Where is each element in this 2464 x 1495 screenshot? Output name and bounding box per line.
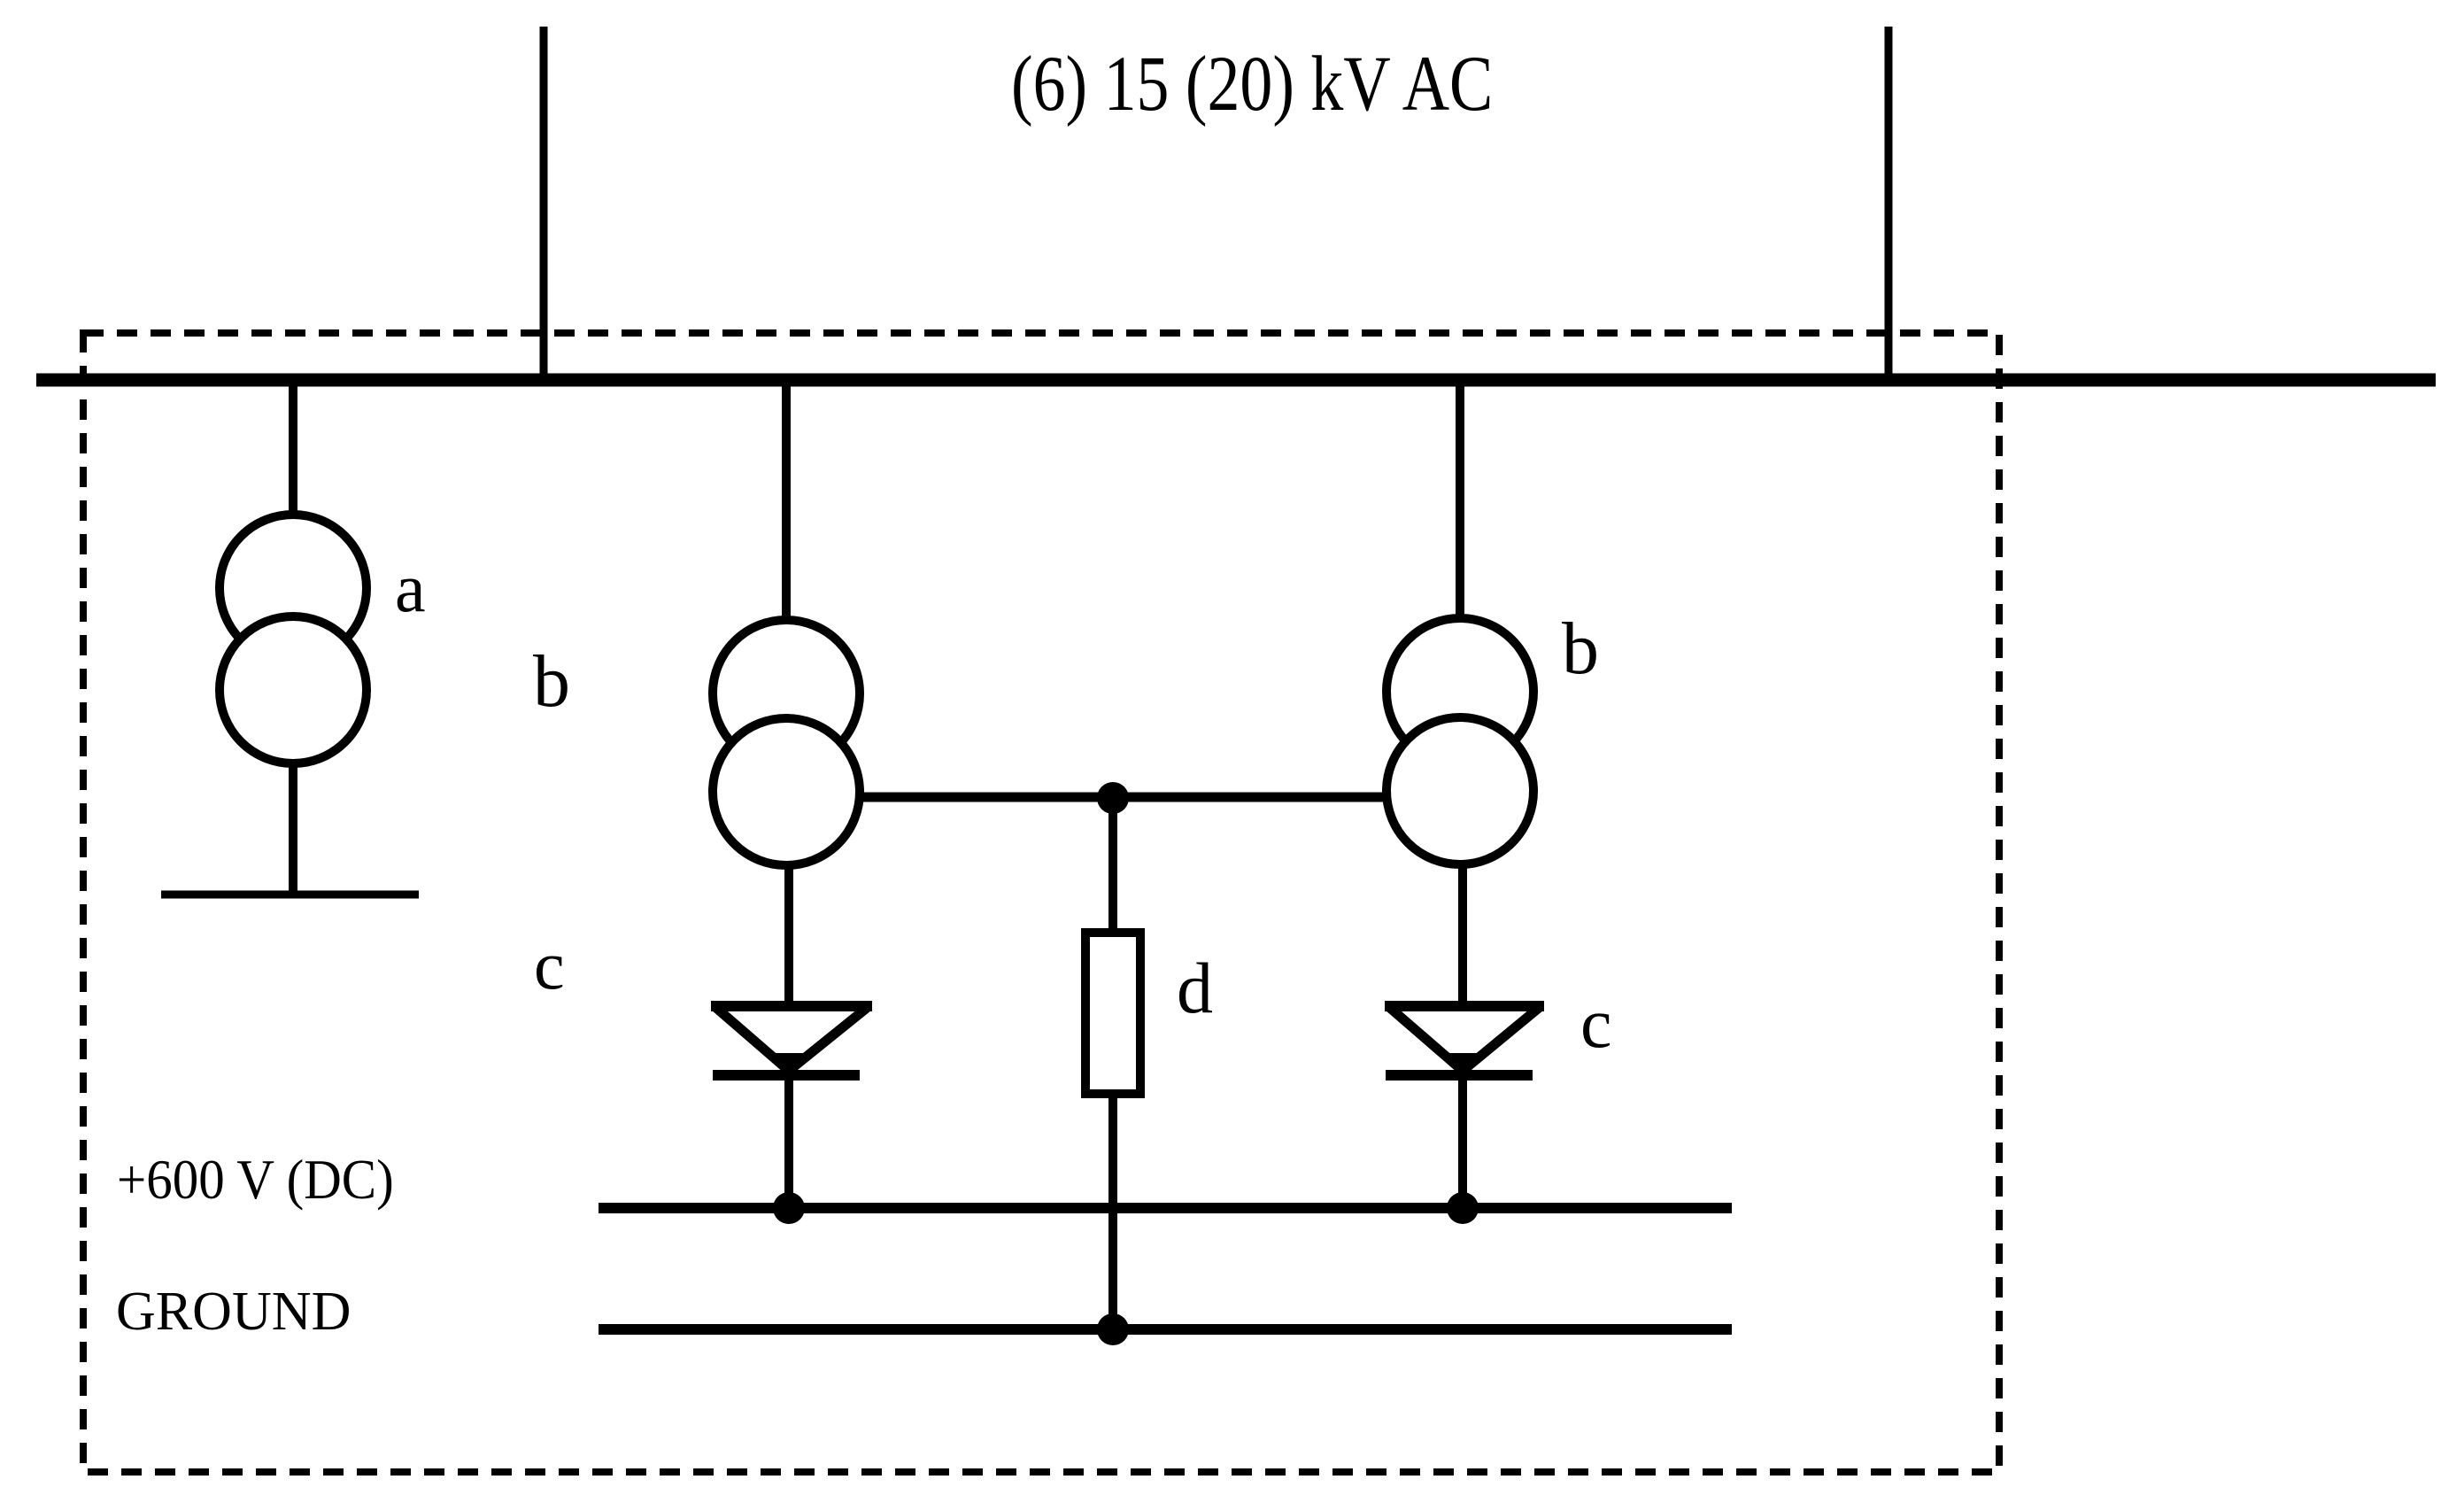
svg-text:c: c (1580, 985, 1612, 1063)
label GROUND (116, 1280, 351, 1343)
diode c right: top bar (1385, 1001, 1544, 1011)
transformer a (220, 515, 367, 763)
wire: diode c middle to +600V line (784, 1069, 793, 1208)
wire: resistor d to ground line (1108, 1094, 1117, 1329)
feeder line right (1885, 27, 1893, 380)
ground symbol (transformer a) (161, 891, 419, 899)
junction dot: resistor d on ground line (1097, 1313, 1129, 1345)
svg-text:GROUND: GROUND (116, 1280, 351, 1343)
wire: bus to transformer b right (1456, 380, 1464, 636)
AC bus bar (36, 374, 2436, 387)
diode c middle: top bar (711, 1001, 872, 1011)
svg-text:b: b (1562, 608, 1599, 690)
diode c middle: left slant (716, 1008, 789, 1071)
diode c right: apex fill (1448, 1053, 1483, 1074)
GROUND line (599, 1324, 1732, 1335)
label +600 V (DC) (117, 1150, 394, 1211)
diode c right: right slant (1463, 1008, 1539, 1071)
label c left (534, 926, 565, 1003)
svg-text:c: c (534, 926, 565, 1003)
resistor d (1085, 933, 1140, 1094)
dashed substation enclosure box (83, 333, 1999, 1472)
label b middle (533, 640, 570, 723)
svg-text:d: d (1177, 948, 1213, 1028)
transformer b middle (713, 620, 860, 865)
wire: diode c right to +600V line (1458, 1069, 1467, 1208)
node N1 wire: middle transformer to right transformer (786, 793, 1460, 802)
label c right (1580, 985, 1612, 1063)
svg-text:(6) 15 (20) kV AC: (6) 15 (20) kV AC (1011, 40, 1493, 128)
wire: transformer b right to diode c right (1458, 791, 1467, 1003)
wire: bus to transformer a (289, 380, 297, 531)
junction dot: diode c right on +600V line (1447, 1192, 1479, 1224)
svg-text:b: b (533, 640, 570, 723)
label b right (1562, 608, 1599, 690)
diode c right: cathode bar (1386, 1070, 1533, 1081)
diode c middle: cathode bar (713, 1070, 860, 1081)
transformer b right (1386, 618, 1533, 864)
feeder line left (540, 27, 548, 380)
junction node N1 dot (1097, 782, 1129, 814)
label a (395, 549, 426, 626)
label (6) 15 (20) kV AC (1011, 40, 1493, 128)
wire: transformer a to ground bar (289, 709, 297, 895)
wire: bus to transformer b middle (782, 380, 791, 638)
+600 V (DC) line (599, 1203, 1732, 1213)
wire: transformer b middle to diode c (784, 792, 793, 1003)
diode c middle: apex fill (774, 1053, 809, 1074)
svg-text:a: a (395, 549, 426, 626)
diode c middle: right slant (789, 1008, 867, 1071)
wire: node N1 to resistor d (1108, 798, 1117, 932)
diode c right: left slant (1390, 1008, 1463, 1071)
svg-text:+600 V (DC): +600 V (DC) (117, 1150, 394, 1211)
junction dot: diode c middle on +600V line (773, 1192, 805, 1224)
label d (1177, 948, 1213, 1028)
